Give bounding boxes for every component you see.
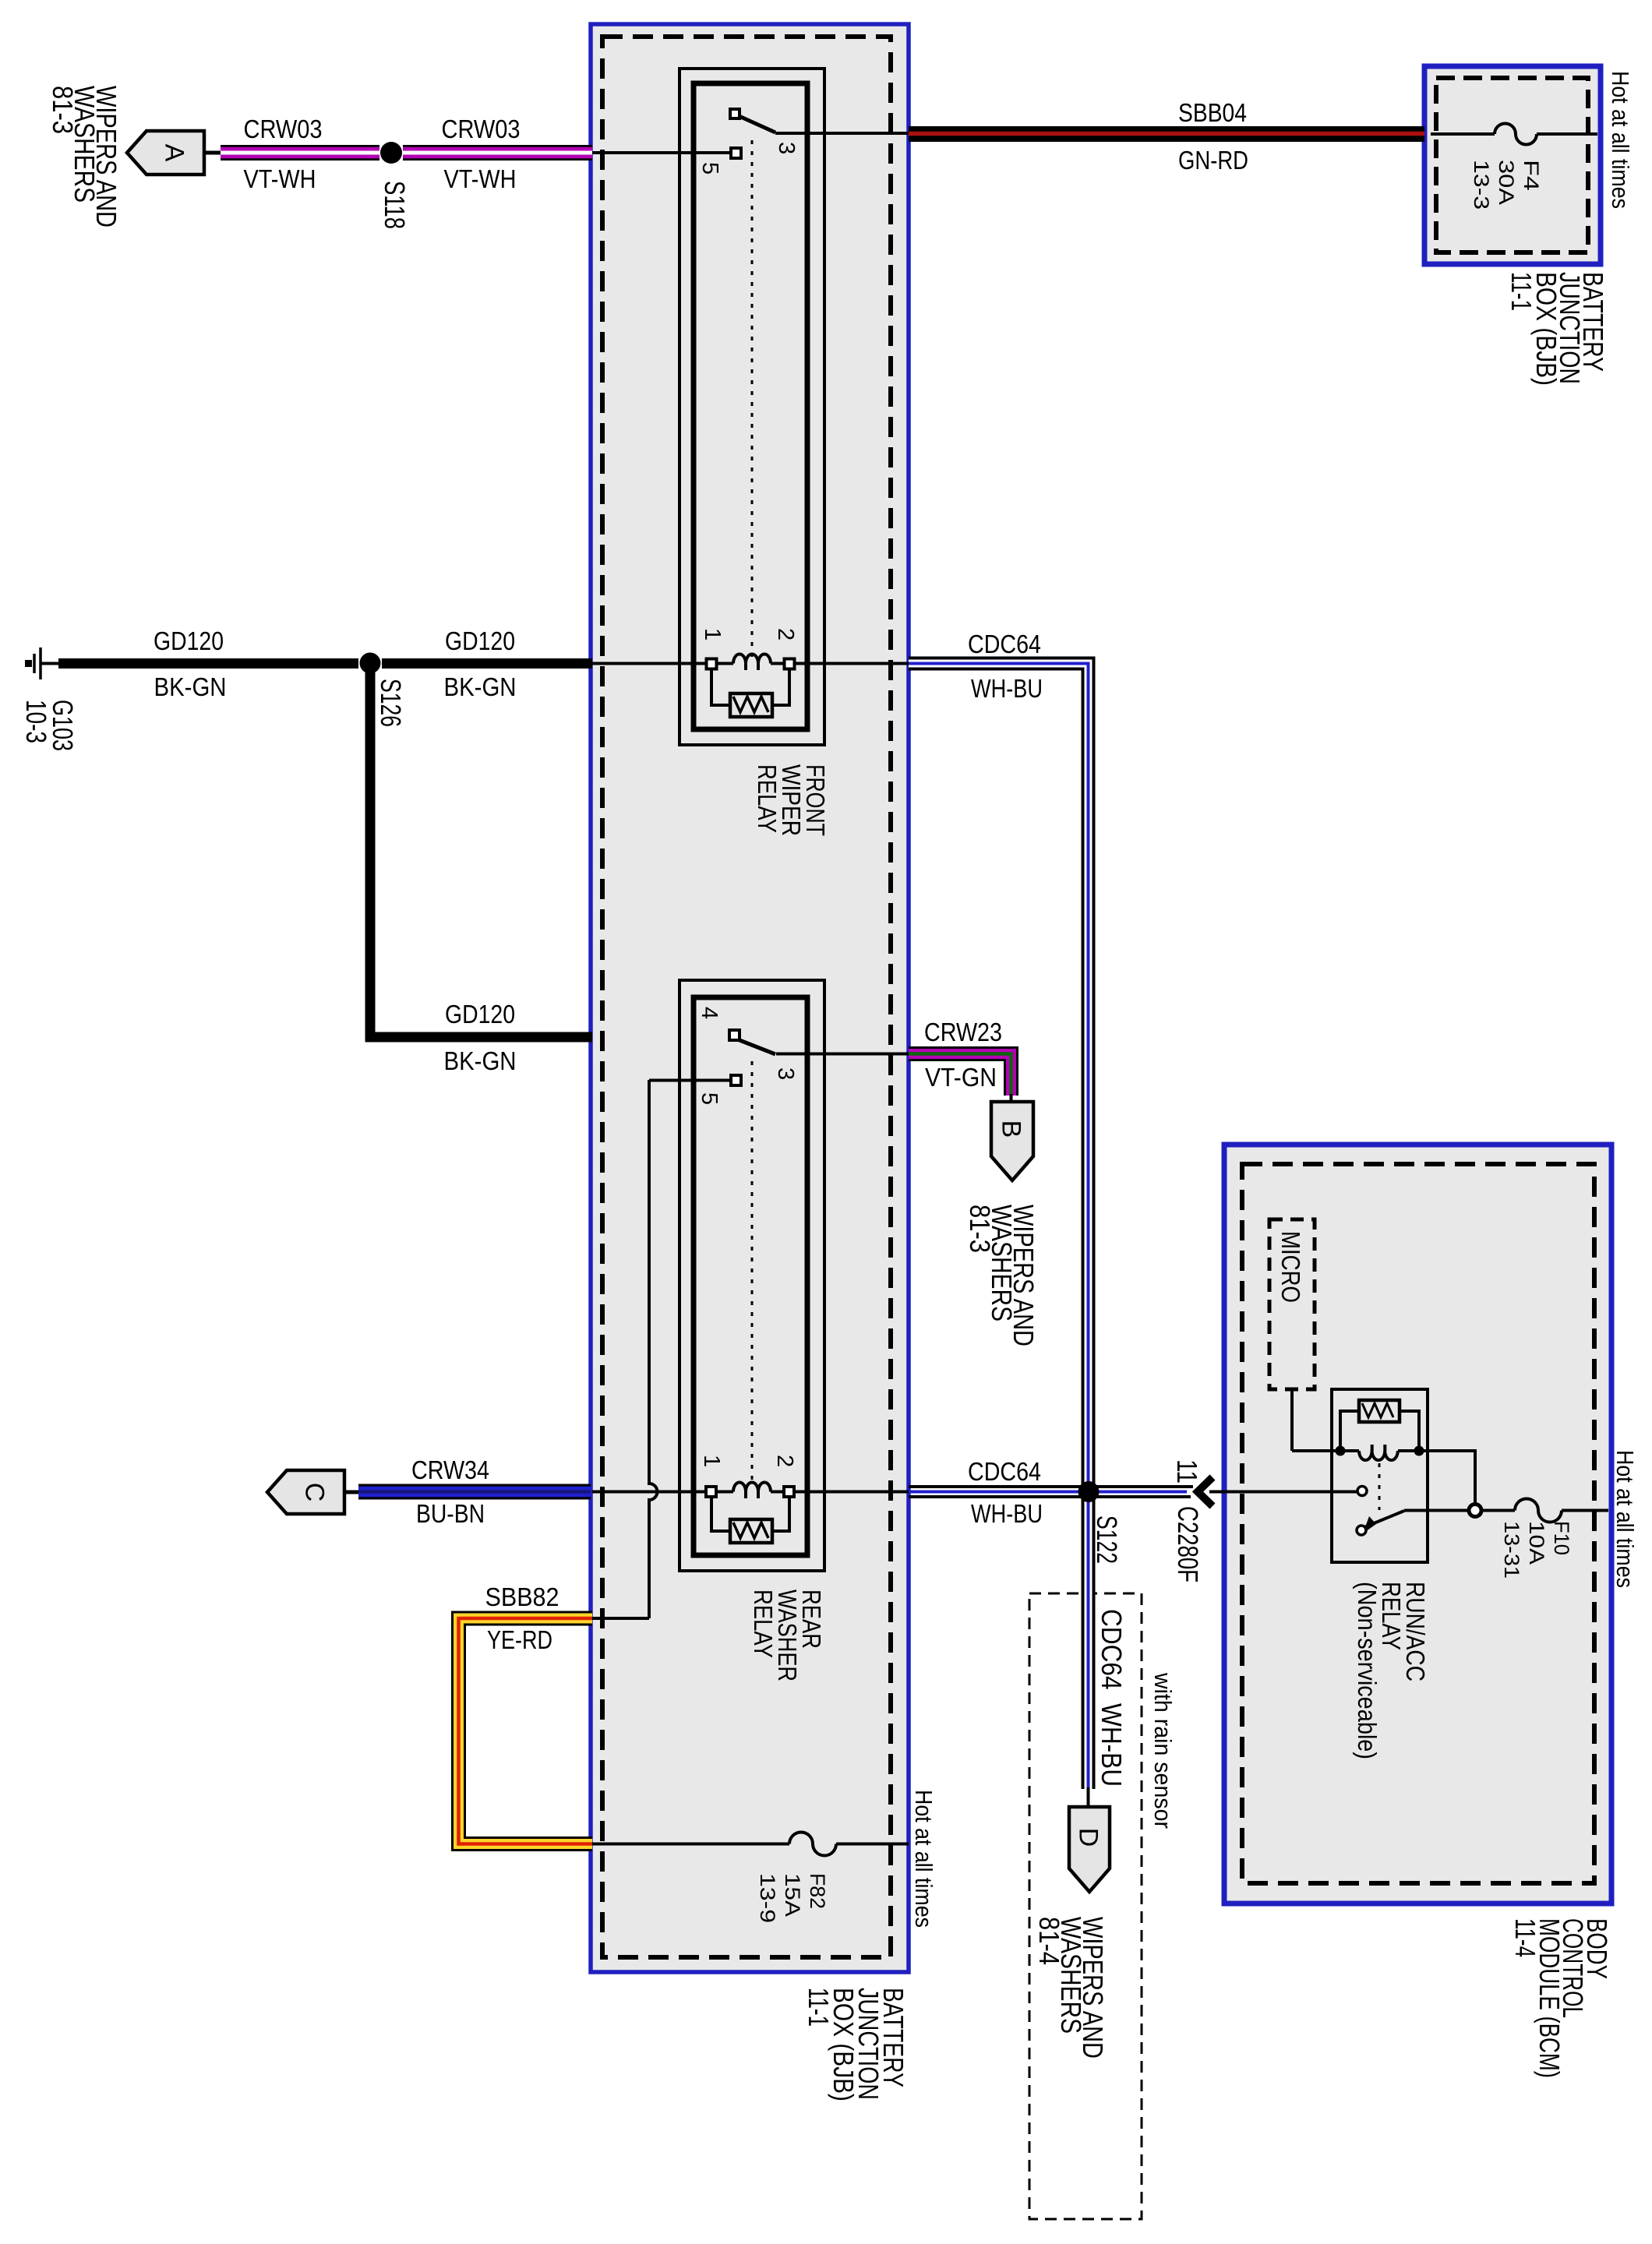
svg-text:CDC64: CDC64 [968, 1457, 1041, 1486]
svg-text:RELAY: RELAY [749, 1589, 778, 1658]
svg-text:RELAY: RELAY [753, 764, 782, 833]
svg-text:SBB04: SBB04 [1178, 98, 1247, 127]
svg-text:81-3: 81-3 [964, 1205, 996, 1253]
svg-text:GN-RD: GN-RD [1178, 146, 1248, 175]
svg-text:CRW03: CRW03 [442, 115, 521, 143]
svg-text:GD120: GD120 [445, 1000, 515, 1028]
svg-text:3: 3 [773, 1067, 798, 1080]
svg-text:CDC64 WH-BU: CDC64 WH-BU [1096, 1609, 1128, 1787]
svg-text:D: D [1074, 1828, 1103, 1847]
svg-text:WH-BU: WH-BU [971, 674, 1043, 703]
svg-text:S126: S126 [375, 679, 407, 727]
svg-text:A: A [160, 144, 189, 162]
svg-text:CDC64: CDC64 [968, 630, 1041, 658]
svg-text:13-9: 13-9 [756, 1873, 779, 1923]
svg-text:11-4: 11-4 [1509, 1918, 1541, 1957]
svg-text:81-4: 81-4 [1033, 1917, 1065, 1965]
svg-text:5: 5 [697, 1092, 722, 1105]
svg-text:C: C [300, 1483, 330, 1502]
svg-text:C2280F: C2280F [1172, 1506, 1204, 1582]
svg-text:10A: 10A [1525, 1521, 1548, 1565]
svg-text:F82: F82 [806, 1873, 829, 1909]
svg-text:Hot at all times: Hot at all times [1611, 1450, 1639, 1588]
svg-text:F10: F10 [1550, 1521, 1573, 1555]
svg-text:S122: S122 [1091, 1515, 1123, 1564]
svg-text:3: 3 [774, 142, 799, 154]
svg-text:2: 2 [773, 628, 798, 640]
svg-text:(Non-serviceable): (Non-serviceable) [1353, 1582, 1382, 1759]
svg-text:MICRO: MICRO [1276, 1231, 1305, 1303]
svg-text:11-1: 11-1 [1506, 272, 1537, 311]
svg-text:WH-BU: WH-BU [971, 1499, 1043, 1528]
svg-text:SBB82: SBB82 [485, 1582, 559, 1611]
svg-text:CRW23: CRW23 [924, 1018, 1002, 1046]
svg-text:11: 11 [1171, 1459, 1203, 1484]
svg-text:1: 1 [700, 628, 725, 640]
svg-text:VT-WH: VT-WH [244, 164, 316, 193]
svg-text:F4: F4 [1520, 160, 1543, 191]
svg-text:BK-GN: BK-GN [444, 1046, 517, 1075]
svg-text:13-31: 13-31 [1500, 1521, 1523, 1579]
svg-text:CRW03: CRW03 [244, 115, 323, 143]
svg-text:YE-RD: YE-RD [487, 1625, 552, 1654]
svg-text:10-3: 10-3 [20, 700, 52, 743]
svg-text:30A: 30A [1495, 160, 1518, 205]
svg-text:B: B [997, 1120, 1026, 1138]
svg-text:GD120: GD120 [445, 626, 515, 655]
svg-text:11-1: 11-1 [803, 1988, 835, 2027]
svg-text:5: 5 [697, 162, 722, 175]
svg-text:1: 1 [699, 1455, 724, 1467]
svg-text:BK-GN: BK-GN [154, 672, 227, 701]
svg-text:13-3: 13-3 [1470, 160, 1493, 210]
svg-text:VT-WH: VT-WH [444, 164, 517, 193]
svg-text:with rain sensor: with rain sensor [1149, 1672, 1177, 1829]
svg-text:CRW34: CRW34 [411, 1455, 489, 1484]
svg-text:S118: S118 [379, 181, 411, 229]
svg-text:15A: 15A [781, 1873, 804, 1917]
svg-text:81-3: 81-3 [47, 86, 79, 134]
svg-text:4: 4 [697, 1007, 722, 1019]
svg-text:BU-BN: BU-BN [416, 1499, 485, 1528]
svg-text:Hot at all times: Hot at all times [1607, 71, 1634, 209]
svg-text:Hot at all times: Hot at all times [910, 1790, 937, 1928]
svg-text:2: 2 [772, 1455, 797, 1467]
svg-text:VT-GN: VT-GN [925, 1063, 997, 1092]
svg-text:BK-GN: BK-GN [444, 672, 517, 701]
svg-text:GD120: GD120 [154, 626, 224, 655]
